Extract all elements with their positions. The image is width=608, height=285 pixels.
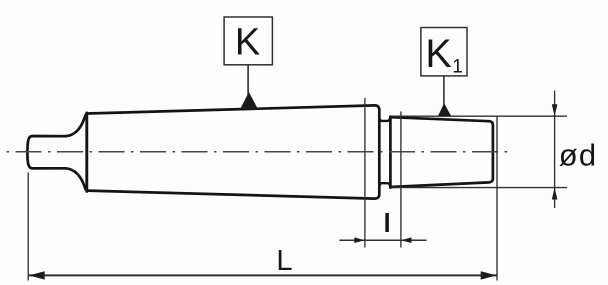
od bottom arrow (552, 188, 558, 200)
groove bottom (380, 183, 391, 186)
K1 pointer triangle (438, 103, 452, 116)
svg-text:L: L (276, 245, 292, 277)
centerline (5, 151, 507, 153)
tang fillet top (65, 115, 86, 136)
l dimension line (340, 239, 427, 241)
K label box (224, 17, 272, 65)
svg-text:ød: ød (559, 138, 598, 173)
jacobs taper body (390, 117, 493, 187)
od top extension line (391, 115, 567, 117)
L right arrow (481, 271, 497, 279)
L left extension line (27, 173, 29, 281)
svg-text:1: 1 (452, 57, 463, 78)
od bottom extension line (391, 187, 567, 189)
L right extension line (496, 116, 498, 281)
arrowheads (29, 92, 558, 280)
K leader line (247, 65, 249, 95)
L dimension line (28, 274, 497, 276)
groove top (380, 118, 391, 121)
l right arrow (401, 237, 412, 243)
jacobs taper left edge (389, 117, 392, 188)
shoulder line (morse taper small end) (85, 113, 88, 191)
od dimension line (554, 91, 556, 209)
K pointer triangle (240, 92, 258, 109)
K1 leader line (443, 76, 445, 106)
l left arrow (354, 237, 365, 243)
l left extension line (364, 98, 366, 248)
svg-text:l: l (384, 208, 391, 238)
svg-text:K: K (425, 32, 451, 76)
l right extension line (400, 112, 402, 248)
L left arrow (29, 271, 45, 279)
od top arrow (552, 104, 558, 116)
svg-text:K: K (235, 22, 260, 64)
K1 label box (421, 28, 467, 76)
tang (27, 136, 66, 168)
morse taper body (87, 105, 380, 198)
tang fillet bottom (65, 168, 86, 189)
arbor body outlines (27, 105, 493, 198)
